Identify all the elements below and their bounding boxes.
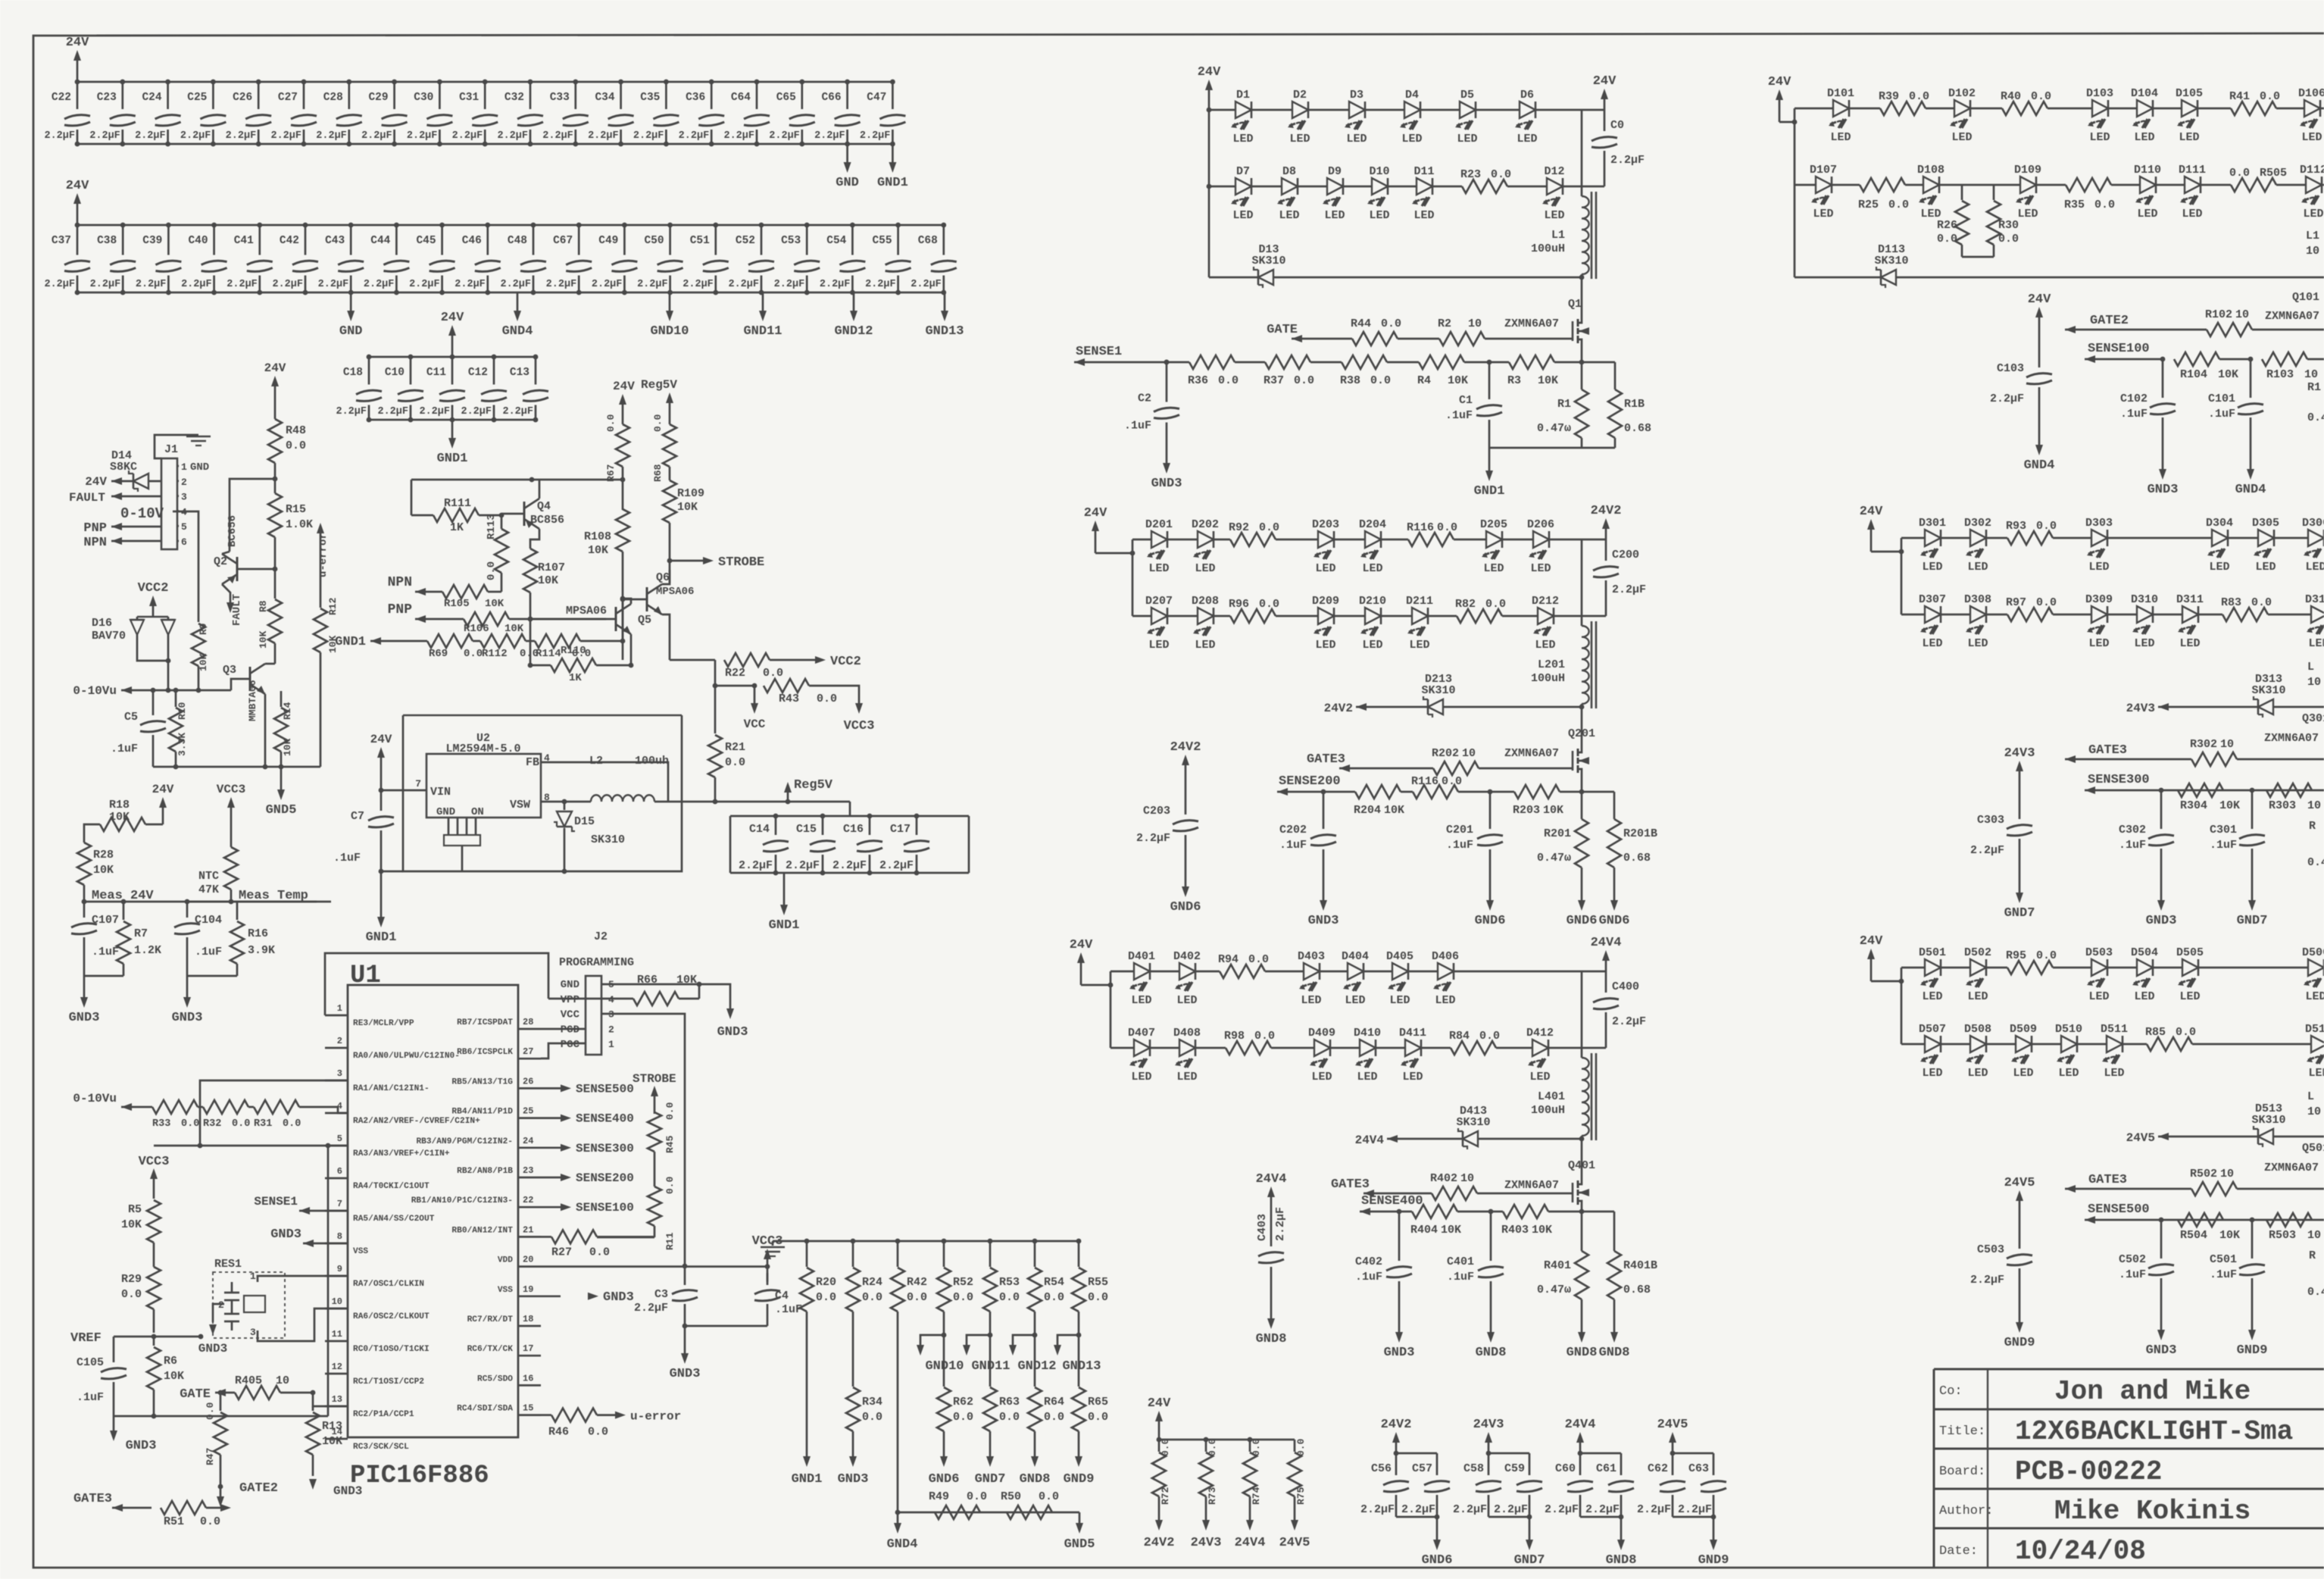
svg-text:13: 13 xyxy=(332,1394,342,1405)
svg-text:R63: R63 xyxy=(999,1396,1020,1409)
resistor R94 xyxy=(1220,965,1265,978)
resistor R52 xyxy=(943,1241,945,1267)
svg-text:LED: LED xyxy=(2182,208,2202,220)
svg-text:C202: C202 xyxy=(1279,824,1307,836)
resistor R37 xyxy=(1235,361,1265,364)
resistor R41 xyxy=(2231,102,2276,115)
LED D110 xyxy=(2140,177,2156,193)
svg-text:2.2µF: 2.2µF xyxy=(1136,832,1170,845)
svg-text:R14: R14 xyxy=(282,702,293,720)
svg-text:LED: LED xyxy=(1176,1071,1197,1083)
wire xyxy=(1421,109,1459,111)
resistor R44 xyxy=(1292,338,1352,340)
resistor R104 xyxy=(2174,352,2219,366)
svg-text:ZXMN6A07: ZXMN6A07 xyxy=(1504,1179,1559,1192)
net GATE2 xyxy=(2065,326,2076,333)
svg-text:0.0: 0.0 xyxy=(1479,1030,1500,1043)
svg-text:D511: D511 xyxy=(2101,1023,2128,1036)
svg-text:R48: R48 xyxy=(286,424,306,437)
resistor R16 xyxy=(236,902,239,920)
svg-text:LED: LED xyxy=(1967,637,1988,650)
capacitor C29 xyxy=(393,82,395,109)
svg-text:ZXMN6A07: ZXMN6A07 xyxy=(1504,747,1559,760)
svg-text:C63: C63 xyxy=(1688,1462,1709,1475)
capacitor C107 xyxy=(83,902,86,918)
svg-text:0.0: 0.0 xyxy=(862,1411,882,1424)
svg-text:24V: 24V xyxy=(1084,506,1107,521)
svg-text:D210: D210 xyxy=(1359,595,1386,608)
capacitor C45 xyxy=(441,225,443,255)
svg-text:D302: D302 xyxy=(1964,517,1991,530)
LED D210 xyxy=(1365,608,1381,624)
svg-text:24V3: 24V3 xyxy=(2126,702,2155,715)
LED D105 xyxy=(2182,100,2197,117)
svg-text:GND3: GND3 xyxy=(838,1472,869,1487)
wire xyxy=(1502,615,1537,618)
power 24V4 xyxy=(1579,1441,1582,1453)
svg-text:LED: LED xyxy=(1195,562,1215,575)
resistor R13 xyxy=(312,1406,314,1411)
diode D213 SK310 xyxy=(1428,699,1443,714)
wire C7 to loop xyxy=(381,871,403,873)
svg-text:D312: D312 xyxy=(2305,593,2324,606)
svg-text:2.2µF: 2.2µF xyxy=(634,1302,668,1315)
svg-text:Reg5V: Reg5V xyxy=(794,778,833,793)
svg-text:L2: L2 xyxy=(589,755,603,768)
svg-text:10: 10 xyxy=(2304,368,2318,381)
power 24V4 xyxy=(1270,1196,1273,1208)
svg-text:24V: 24V xyxy=(152,783,174,796)
svg-text:C302: C302 xyxy=(2119,824,2146,836)
svg-text:0.0: 0.0 xyxy=(664,1176,676,1194)
svg-text:0.0: 0.0 xyxy=(1088,1291,1108,1304)
ground GND4 xyxy=(517,292,519,312)
wire xyxy=(1265,971,1303,973)
LED D201 xyxy=(1151,531,1167,548)
svg-text:0.0: 0.0 xyxy=(200,1515,220,1528)
svg-text:24V: 24V xyxy=(66,36,89,50)
svg-text:Q501: Q501 xyxy=(2302,1142,2324,1155)
resistor R203 xyxy=(1490,791,1514,793)
svg-text:24V: 24V xyxy=(1768,75,1791,89)
svg-text:R505: R505 xyxy=(2260,167,2287,180)
ground GND6 xyxy=(1436,1517,1438,1541)
svg-text:R6: R6 xyxy=(164,1355,177,1368)
resistor R304 xyxy=(2178,783,2223,797)
resistor R28 xyxy=(77,843,91,885)
wire cap pair rails xyxy=(1673,1452,1713,1455)
svg-text:STROBE: STROBE xyxy=(718,555,764,570)
svg-text:SK310: SK310 xyxy=(2251,684,2285,697)
svg-text:C51: C51 xyxy=(690,235,710,247)
svg-text:C54: C54 xyxy=(826,235,846,247)
wire xyxy=(2322,184,2324,186)
svg-text:GATE3: GATE3 xyxy=(2088,1173,2127,1187)
svg-text:D204: D204 xyxy=(1359,518,1386,531)
svg-text:100uH: 100uH xyxy=(1531,242,1565,255)
ground GND3 xyxy=(2160,1307,2163,1331)
wire xyxy=(1376,1047,1404,1049)
svg-text:GND6: GND6 xyxy=(1475,914,1506,928)
capacitor C25 xyxy=(212,82,214,109)
wire xyxy=(1422,1047,1451,1049)
svg-text:0.0: 0.0 xyxy=(725,756,745,769)
capacitor C13 xyxy=(535,357,537,385)
svg-text:100uH: 100uH xyxy=(1531,1104,1565,1117)
svg-text:GND: GND xyxy=(436,806,455,818)
wire gnd array rail xyxy=(773,1240,1079,1243)
wire gate xyxy=(1477,1193,1573,1195)
wire xyxy=(1987,614,2007,616)
svg-text:R112: R112 xyxy=(482,648,508,660)
svg-text:Date:: Date: xyxy=(1939,1544,1978,1559)
svg-text:R75: R75 xyxy=(1295,1487,1307,1505)
wire left rail to schottky row xyxy=(1208,186,1210,277)
resistor R106 xyxy=(464,612,509,626)
pin 13 RC2/P1A/CCP1 xyxy=(325,1405,348,1408)
svg-text:C22: C22 xyxy=(52,92,71,104)
svg-text:D5: D5 xyxy=(1460,89,1474,102)
capacitor C54 xyxy=(851,225,854,255)
svg-text:LED: LED xyxy=(1402,1071,1423,1083)
svg-text:LED: LED xyxy=(1357,1071,1377,1083)
capacitor C39 xyxy=(167,225,170,255)
resistor R112 xyxy=(473,640,480,643)
net SENSE1 pin7 xyxy=(325,1210,348,1212)
svg-text:R83: R83 xyxy=(2221,596,2241,609)
svg-text:2.2µF: 2.2µF xyxy=(419,406,450,417)
svg-text:R37: R37 xyxy=(1264,374,1284,387)
resistor R14 xyxy=(280,691,283,707)
svg-text:2.2µF: 2.2µF xyxy=(461,406,492,417)
ground GND6 xyxy=(1489,877,1492,902)
pin 9 RA7/OSC1/CLKIN xyxy=(325,1275,348,1277)
LED D501 xyxy=(1925,959,1941,976)
wire left rail xyxy=(1794,108,1796,185)
net FAULT down xyxy=(222,584,230,602)
LED D111 xyxy=(2185,177,2201,193)
svg-text:VPP: VPP xyxy=(561,994,579,1006)
net SENSE500 xyxy=(541,1087,561,1090)
power 24V feed xyxy=(1870,528,1873,552)
svg-text:2.2µF: 2.2µF xyxy=(136,279,167,290)
svg-text:C11: C11 xyxy=(426,367,446,379)
svg-text:RC1/T1OSI/CCP2: RC1/T1OSI/CCP2 xyxy=(353,1377,424,1387)
svg-text:PGC: PGC xyxy=(561,1039,580,1051)
capacitor C401 xyxy=(1490,1212,1492,1261)
svg-text:2.2µF: 2.2µF xyxy=(497,130,528,142)
power 24V feed xyxy=(1095,530,1097,553)
wire C14 block sides xyxy=(729,816,732,873)
svg-text:Author:: Author: xyxy=(1939,1504,1993,1518)
resistor R403 xyxy=(1491,1211,1503,1213)
wire xyxy=(2275,537,2307,539)
svg-text:LED: LED xyxy=(2134,131,2154,144)
LED D512 xyxy=(2311,1036,2324,1052)
pin 1 RE3/MCLR/VPP xyxy=(325,1015,348,1017)
svg-text:D411: D411 xyxy=(1399,1027,1426,1040)
svg-text:D208: D208 xyxy=(1192,595,1219,608)
svg-text:GND7: GND7 xyxy=(2004,906,2035,921)
svg-text:D507: D507 xyxy=(1919,1023,1946,1036)
svg-text:25: 25 xyxy=(523,1106,533,1117)
wire xyxy=(1433,186,1462,188)
power 24V feed at x=102 xyxy=(77,59,79,82)
LED D207 xyxy=(1151,608,1167,624)
svg-text:2.2µF: 2.2µF xyxy=(409,279,440,290)
svg-text:C56: C56 xyxy=(1371,1462,1392,1475)
svg-text:.1uF: .1uF xyxy=(111,743,138,755)
svg-text:J1: J1 xyxy=(164,443,178,456)
wire xyxy=(1252,109,1292,111)
LED D10 xyxy=(1372,178,1388,195)
svg-text:0.0: 0.0 xyxy=(2251,596,2272,609)
wire xyxy=(1940,184,2019,186)
svg-text:SENSE500: SENSE500 xyxy=(576,1082,634,1096)
resistor R201B xyxy=(1613,792,1616,819)
svg-text:GND7: GND7 xyxy=(2237,914,2268,928)
wire gate xyxy=(1479,768,1573,770)
svg-text:GND4: GND4 xyxy=(887,1537,918,1552)
wire xyxy=(1335,539,1364,541)
capacitor C3 xyxy=(684,1267,686,1285)
LED D403 xyxy=(1304,963,1320,980)
svg-text:C28: C28 xyxy=(323,92,343,104)
svg-text:2.2µF: 2.2µF xyxy=(814,130,845,142)
capacitor C38 xyxy=(122,225,124,255)
svg-text:R39: R39 xyxy=(1879,90,1899,103)
svg-text:C55: C55 xyxy=(872,235,892,247)
svg-text:Q2: Q2 xyxy=(214,555,227,568)
svg-text:2.2µF: 2.2µF xyxy=(723,130,754,142)
svg-text:R45: R45 xyxy=(664,1135,676,1153)
svg-text:R93: R93 xyxy=(2006,520,2026,533)
svg-text:2.2µF: 2.2µF xyxy=(44,130,75,142)
svg-text:GND13: GND13 xyxy=(1062,1359,1101,1374)
net 24V3 xyxy=(2158,703,2169,711)
LED D12 xyxy=(1547,178,1563,195)
svg-text:R96: R96 xyxy=(1229,598,1249,611)
svg-text:LED: LED xyxy=(1232,209,1253,222)
svg-text:0-10Vu: 0-10Vu xyxy=(73,684,117,698)
LED D212 xyxy=(1538,608,1554,624)
LED D112 xyxy=(2306,177,2322,193)
svg-text:R401B: R401B xyxy=(1623,1259,1657,1272)
svg-text:C101: C101 xyxy=(2208,392,2235,405)
svg-text:LED: LED xyxy=(1345,994,1365,1007)
svg-text:u-error: u-error xyxy=(317,533,330,577)
wire xyxy=(2229,537,2257,539)
LED D507 xyxy=(1925,1036,1941,1052)
svg-text:R41: R41 xyxy=(2229,90,2250,103)
svg-text:R36: R36 xyxy=(1188,374,1208,387)
svg-text:L1: L1 xyxy=(1551,229,1565,242)
svg-text:24V5: 24V5 xyxy=(2004,1176,2035,1190)
svg-text:.1uF: .1uF xyxy=(92,946,119,958)
wire xyxy=(1832,184,1860,186)
svg-text:10K: 10K xyxy=(588,544,608,557)
svg-text:LED: LED xyxy=(1362,639,1382,652)
svg-text:GATE: GATE xyxy=(1267,323,1298,337)
svg-text:.1uF: .1uF xyxy=(333,852,361,865)
svg-text:LED: LED xyxy=(2058,1067,2079,1080)
svg-text:LED: LED xyxy=(2179,637,2200,650)
ground GND8 xyxy=(1581,1309,1583,1334)
svg-text:10/24/08: 10/24/08 xyxy=(2015,1536,2146,1567)
svg-text:10K: 10K xyxy=(282,738,293,756)
svg-text:C13: C13 xyxy=(510,367,529,379)
svg-text:10K: 10K xyxy=(1543,804,1563,817)
wire xyxy=(1850,108,1880,110)
svg-text:SENSE1: SENSE1 xyxy=(1076,345,1122,359)
wire xyxy=(1941,967,1969,969)
capacitor C67 xyxy=(578,225,580,255)
svg-text:RE3/MCLR/VPP: RE3/MCLR/VPP xyxy=(353,1019,414,1028)
svg-text:C2: C2 xyxy=(1138,392,1151,405)
svg-text:GND5: GND5 xyxy=(266,803,297,818)
svg-text:PCB-00222: PCB-00222 xyxy=(2015,1456,2162,1487)
pin 20 VDD xyxy=(518,1265,541,1268)
LED D108 xyxy=(1923,177,1939,193)
wire xyxy=(2268,614,2310,616)
power 24V feed xyxy=(1779,98,1781,122)
svg-text:RA3/AN3/VREF+/C1IN+: RA3/AN3/VREF+/C1IN+ xyxy=(353,1149,450,1158)
capacitor C63 xyxy=(1713,1453,1715,1475)
svg-text:Q301: Q301 xyxy=(2302,712,2324,725)
svg-text:0.0: 0.0 xyxy=(2036,520,2057,533)
resistor R47 xyxy=(220,1393,222,1411)
svg-text:L: L xyxy=(2307,1090,2314,1103)
svg-text:D307: D307 xyxy=(1919,593,1946,606)
svg-text:24V: 24V xyxy=(441,311,464,325)
LED D402 xyxy=(1179,963,1195,980)
ground GND8 xyxy=(1613,1309,1616,1334)
svg-text:0.0: 0.0 xyxy=(1437,521,1457,534)
ground GND3 xyxy=(83,976,86,999)
svg-text:2.2µF: 2.2µF xyxy=(1545,1503,1579,1516)
wire xyxy=(1549,1047,1582,1049)
svg-text:GND6: GND6 xyxy=(1170,900,1201,915)
ground GND12 xyxy=(853,292,855,312)
svg-text:0.0: 0.0 xyxy=(2036,596,2057,609)
svg-text:C200: C200 xyxy=(1612,549,1639,561)
resistor R113 xyxy=(499,513,504,518)
svg-text:10: 10 xyxy=(2235,308,2249,321)
svg-text:R503: R503 xyxy=(2269,1229,2296,1242)
svg-text:C402: C402 xyxy=(1355,1255,1382,1268)
svg-text:C38: C38 xyxy=(97,235,117,247)
svg-text:R51: R51 xyxy=(164,1515,184,1528)
svg-text:GND9: GND9 xyxy=(2004,1336,2035,1350)
capacitor C4 xyxy=(767,1282,769,1285)
resistor R72 xyxy=(1158,1440,1160,1452)
svg-text:0.0: 0.0 xyxy=(967,1490,987,1503)
pin 16 RC5/SDO xyxy=(518,1384,541,1387)
svg-text:RA6/OSC2/CLKOUT: RA6/OSC2/CLKOUT xyxy=(353,1312,430,1321)
power VCC3 at VDD xyxy=(767,1273,769,1282)
svg-text:10: 10 xyxy=(332,1296,342,1307)
wire left rail xyxy=(1208,110,1210,186)
svg-text:D112: D112 xyxy=(2300,164,2324,177)
ground GND1 xyxy=(1488,448,1491,472)
wire xyxy=(1214,539,1230,541)
svg-text:C61: C61 xyxy=(1596,1462,1616,1475)
LED D511 xyxy=(2107,1036,2123,1052)
diode D413 SK310 xyxy=(1463,1131,1478,1146)
svg-text:RA0/AN0/ULPWU/C12IN0-: RA0/AN0/ULPWU/C12IN0- xyxy=(353,1052,460,1061)
wire left rail xyxy=(1901,538,1903,614)
svg-text:RA4/T0CKI/C1OUT: RA4/T0CKI/C1OUT xyxy=(353,1182,430,1191)
svg-text:2.2µF: 2.2µF xyxy=(226,130,257,142)
capacitor C5 xyxy=(152,690,155,715)
wire xyxy=(2276,108,2304,110)
capacitor C105 xyxy=(113,1337,115,1362)
wire xyxy=(2053,614,2091,616)
resistor R65 xyxy=(1078,1335,1080,1387)
svg-text:R3: R3 xyxy=(1507,374,1521,387)
svg-text:LED: LED xyxy=(1967,561,1988,574)
svg-text:0.0: 0.0 xyxy=(664,1102,676,1120)
ground GND9 xyxy=(1713,1517,1715,1541)
svg-text:RC6/TX/CK: RC6/TX/CK xyxy=(467,1345,514,1354)
wire pin4 to R9 column xyxy=(173,511,198,622)
svg-text:C64: C64 xyxy=(731,92,751,104)
svg-text:SENSE400: SENSE400 xyxy=(1361,1194,1423,1208)
svg-text:R73: R73 xyxy=(1207,1487,1218,1505)
pin 12 RC1/T1OSI/CCP2 xyxy=(325,1373,348,1375)
svg-text:LED: LED xyxy=(2179,131,2199,144)
svg-text:C14: C14 xyxy=(749,823,770,836)
svg-text:u-error: u-error xyxy=(630,1410,681,1424)
svg-text:ON: ON xyxy=(471,806,484,818)
capacitor C24 xyxy=(167,82,169,109)
wire xyxy=(2108,537,2211,539)
svg-text:VSW: VSW xyxy=(510,799,530,811)
LED D8 xyxy=(1282,178,1298,195)
capacitor C65 xyxy=(801,82,803,109)
svg-text:LED: LED xyxy=(1279,209,1299,222)
svg-text:C32: C32 xyxy=(504,92,524,104)
svg-text:LED: LED xyxy=(1131,1071,1151,1083)
svg-text:D203: D203 xyxy=(1312,518,1339,531)
svg-text:GND4: GND4 xyxy=(502,324,533,339)
wire VDD xyxy=(541,1265,685,1268)
svg-text:GND3: GND3 xyxy=(2148,483,2179,497)
svg-text:10K: 10K xyxy=(538,574,558,587)
svg-text:18: 18 xyxy=(523,1314,533,1324)
wire sense to source xyxy=(1548,1211,1582,1213)
svg-text:2.2µF: 2.2µF xyxy=(879,859,914,872)
svg-text:STROBE: STROBE xyxy=(633,1072,676,1086)
wire FB loop xyxy=(541,762,668,802)
ground GND13 xyxy=(944,292,946,312)
svg-text:GND3: GND3 xyxy=(717,1025,748,1040)
svg-text:R42: R42 xyxy=(907,1276,927,1289)
svg-text:24V: 24V xyxy=(66,179,89,193)
resistor R46 u-error xyxy=(541,1414,551,1416)
LED D101 xyxy=(1833,100,1849,117)
svg-text:LED: LED xyxy=(2305,561,2324,574)
svg-text:0-10V: 0-10V xyxy=(120,505,164,522)
svg-text:C201: C201 xyxy=(1446,824,1473,836)
resistor R204 xyxy=(1323,791,1355,793)
ground GND12 xyxy=(1034,1312,1036,1335)
pin 11 RC0/T1OSO/T1CKI xyxy=(325,1340,348,1343)
LED D407 xyxy=(1134,1040,1150,1056)
svg-text:10K: 10K xyxy=(1532,1224,1552,1237)
svg-text:2.2µF: 2.2µF xyxy=(1637,1503,1671,1516)
svg-text:LED: LED xyxy=(1529,1071,1550,1083)
